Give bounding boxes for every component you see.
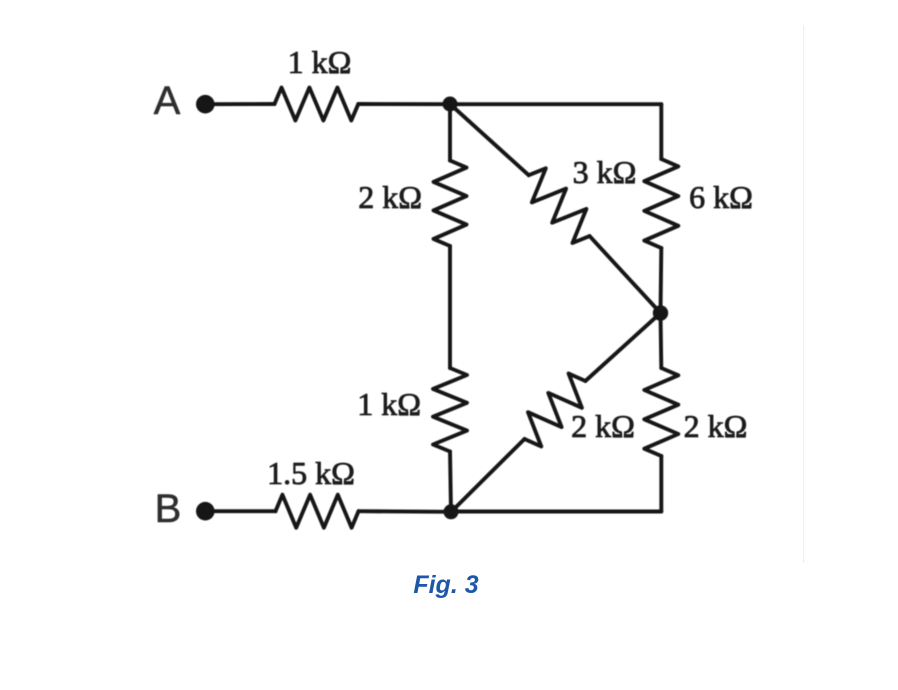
svg-text:3 kΩ: 3 kΩ	[573, 154, 637, 190]
resistor 2 kΩ (left vertical)	[434, 161, 467, 247]
wire R 6k to mid-right node	[659, 248, 664, 313]
resistor 2 kΩ (right lower)	[644, 368, 678, 456]
resistor 6 kΩ (right upper)	[644, 159, 678, 248]
resistor 1.5 kΩ (B branch)	[276, 495, 359, 528]
wire R 1.5k to bottom node	[359, 509, 452, 513]
wire R 2k left to R 1k left	[448, 246, 452, 368]
resistor 1 kΩ (top, A branch)	[275, 88, 359, 121]
diagonal wire R 2k diagonal to mid-right node	[585, 313, 660, 381]
node: top junction	[443, 97, 458, 112]
node A terminal dot	[196, 95, 215, 114]
scan edge artifact (decorative)	[803, 25, 804, 563]
wire mid-right node to R 2k right	[659, 313, 664, 368]
wire A terminal to R 1k	[205, 102, 274, 106]
wire R 1k left to bottom node	[450, 452, 451, 513]
wire bottom-right corner to bottom node	[451, 510, 661, 514]
svg-text:6 kΩ: 6 kΩ	[689, 179, 753, 215]
svg-text:1 kΩ: 1 kΩ	[288, 44, 352, 80]
svg-text:B: B	[155, 487, 182, 531]
wire top node down to R 2k left	[448, 104, 452, 161]
svg-text:Fig. 3: Fig. 3	[413, 571, 478, 599]
wire R 2k right to bottom-right corner	[659, 456, 663, 512]
resistor 1 kΩ (left vertical lower)	[433, 368, 467, 452]
diagonal wire top node to R 3k	[450, 104, 529, 175]
svg-text:2 kΩ: 2 kΩ	[684, 408, 748, 444]
svg-text:1.5 kΩ: 1.5 kΩ	[267, 455, 355, 491]
diagonal wire bottom node to R 2k diagonal	[451, 439, 525, 512]
node: mid-right junction	[653, 305, 668, 320]
node: bottom junction	[444, 504, 459, 519]
diagonal wire R 3k to mid-right node	[590, 236, 661, 313]
svg-text:2 kΩ: 2 kΩ	[571, 408, 635, 444]
svg-text:1 kΩ: 1 kΩ	[357, 386, 421, 422]
svg-text:2 kΩ: 2 kΩ	[358, 179, 422, 215]
wire R 1k to top node	[358, 102, 450, 106]
wire B terminal to R 1.5k	[205, 509, 275, 513]
node B terminal dot	[196, 502, 215, 521]
resistor 3 kΩ (diagonal)	[529, 168, 590, 243]
resistor 2 kΩ (diagonal)	[525, 374, 586, 447]
wire top node to top-right corner	[450, 102, 661, 106]
svg-text:A: A	[154, 79, 181, 123]
wire top-right corner down to R 6k	[659, 104, 663, 159]
